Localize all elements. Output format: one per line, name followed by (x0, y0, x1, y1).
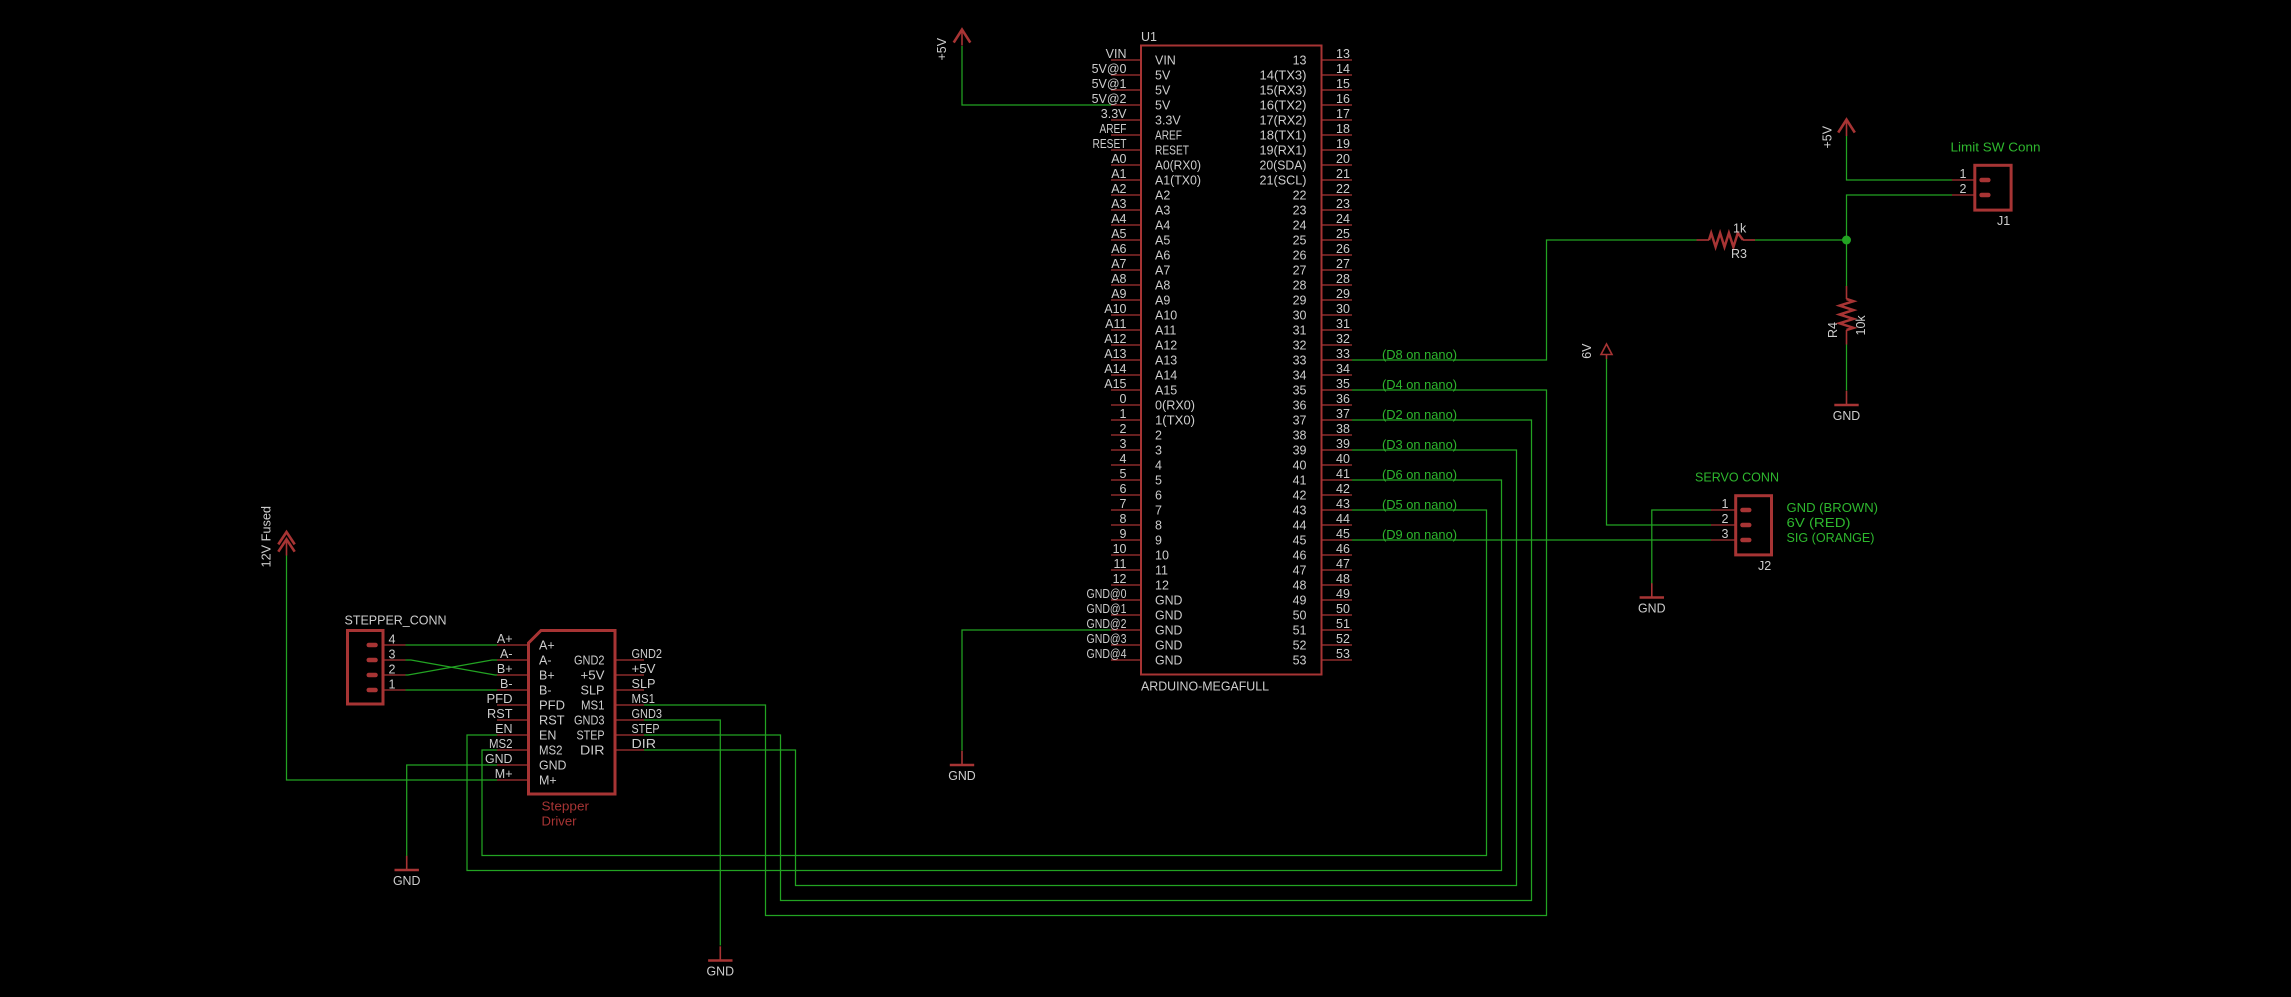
svg-text:A8: A8 (1155, 279, 1170, 293)
wire STEPPER_CONN pin 1 to driver B- (406, 689, 498, 691)
svg-text:ARDUINO-MEGAFULL: ARDUINO-MEGAFULL (1141, 680, 1269, 694)
svg-text:47: 47 (1293, 564, 1307, 578)
wire U1 pin 45 to J2 pin 3 (1352, 539, 1711, 541)
svg-text:26: 26 (1293, 249, 1307, 263)
power +5V supply symbol (left, feeds U1 5V pin) (935, 30, 970, 61)
svg-text:41: 41 (1336, 467, 1350, 481)
svg-text:GND2: GND2 (574, 654, 605, 668)
svg-text:GND: GND (1638, 602, 1666, 616)
svg-text:A5: A5 (1155, 234, 1170, 248)
svg-text:(D3 on nano): (D3 on nano) (1382, 438, 1457, 452)
svg-text:9: 9 (1120, 527, 1127, 541)
svg-text:6: 6 (1155, 489, 1162, 503)
svg-text:Limit SW Conn: Limit SW Conn (1951, 141, 2041, 155)
svg-text:A3: A3 (1111, 197, 1126, 211)
svg-text:46: 46 (1336, 542, 1350, 556)
svg-text:A-: A- (500, 647, 513, 661)
svg-text:6V: 6V (1580, 343, 1594, 359)
svg-text:A9: A9 (1155, 294, 1170, 308)
svg-text:3: 3 (389, 648, 396, 662)
svg-text:20(SDA): 20(SDA) (1260, 159, 1307, 173)
svg-text:+5V: +5V (632, 662, 657, 676)
svg-text:EN: EN (495, 722, 512, 736)
svg-text:21(SCL): 21(SCL) (1260, 174, 1307, 188)
wire driver GND3 pin to ground (644, 720, 720, 946)
svg-text:MS1: MS1 (632, 692, 656, 706)
svg-text:GND@3: GND@3 (1087, 632, 1127, 646)
svg-text:GND (BROWN): GND (BROWN) (1787, 501, 1879, 515)
power 6V supply symbol (1580, 343, 1612, 359)
wire driver DIR pin to U1 pin 39 (644, 450, 1517, 886)
svg-text:DIR: DIR (580, 744, 605, 758)
svg-text:8: 8 (1155, 519, 1162, 533)
svg-text:1(TX0): 1(TX0) (1155, 414, 1195, 428)
svg-text:GND: GND (1155, 624, 1183, 638)
svg-text:0: 0 (1120, 392, 1127, 406)
wire U1 GND@2 pin to ground (962, 630, 1111, 751)
svg-text:1: 1 (389, 678, 396, 692)
svg-text:A+: A+ (497, 632, 513, 646)
svg-text:21: 21 (1336, 167, 1350, 181)
svg-text:A6: A6 (1111, 242, 1126, 256)
svg-text:RESET: RESET (1155, 144, 1189, 158)
svg-text:3: 3 (1120, 437, 1127, 451)
svg-text:A12: A12 (1104, 332, 1126, 346)
svg-text:40: 40 (1293, 459, 1307, 473)
svg-text:A14: A14 (1155, 369, 1177, 383)
svg-text:33: 33 (1336, 347, 1350, 361)
svg-text:30: 30 (1293, 309, 1307, 323)
svg-text:7: 7 (1120, 497, 1127, 511)
ground below stepper driver (393, 856, 421, 888)
svg-text:MS2: MS2 (539, 744, 563, 758)
svg-text:MS1: MS1 (581, 699, 605, 713)
svg-text:(D6 on nano): (D6 on nano) (1382, 468, 1457, 482)
svg-text:42: 42 (1293, 489, 1307, 503)
ground below resistor R4 (1833, 391, 1861, 423)
svg-text:0(RX0): 0(RX0) (1155, 399, 1195, 413)
svg-text:J2: J2 (1758, 559, 1771, 573)
wire +5V to U1 5V@2 pin (962, 46, 1111, 105)
wire STEPPER_CONN pin 2 to driver A- (crossover) (406, 660, 498, 675)
wire J2 pin 2 to 6V supply (1607, 359, 1712, 525)
svg-text:23: 23 (1336, 197, 1350, 211)
svg-text:MS2: MS2 (489, 737, 513, 751)
svg-text:5V: 5V (1155, 69, 1171, 83)
wire driver EN pin to U1 pin 41 (467, 480, 1502, 871)
svg-text:18(TX1): 18(TX1) (1260, 129, 1307, 143)
svg-text:GND: GND (485, 752, 513, 766)
svg-text:R3: R3 (1731, 247, 1747, 261)
IC stepper driver with pin stubs and pin name labels (485, 631, 662, 829)
svg-text:10: 10 (1113, 542, 1127, 556)
svg-text:27: 27 (1336, 257, 1350, 271)
wire driver GND pin to ground (407, 765, 497, 857)
svg-text:29: 29 (1336, 287, 1350, 301)
svg-text:PFD: PFD (487, 692, 513, 706)
svg-text:16: 16 (1336, 92, 1350, 106)
svg-text:36: 36 (1293, 399, 1307, 413)
connector J2 SERVO CONN (1695, 471, 1779, 574)
svg-text:26: 26 (1336, 242, 1350, 256)
svg-text:10k: 10k (1854, 315, 1868, 336)
svg-text:4: 4 (1155, 459, 1162, 473)
svg-text:A1: A1 (1111, 167, 1126, 181)
svg-text:25: 25 (1293, 234, 1307, 248)
svg-text:SLP: SLP (581, 684, 605, 698)
svg-text:SIG (ORANGE): SIG (ORANGE) (1787, 531, 1875, 545)
svg-text:A10: A10 (1155, 309, 1177, 323)
svg-text:A6: A6 (1155, 249, 1170, 263)
svg-text:10: 10 (1155, 549, 1169, 563)
svg-text:24: 24 (1336, 212, 1350, 226)
svg-text:6V (RED): 6V (RED) (1787, 516, 1851, 530)
svg-text:J1: J1 (1997, 214, 2010, 228)
svg-text:(D9 on nano): (D9 on nano) (1382, 528, 1457, 542)
svg-text:22: 22 (1293, 189, 1307, 203)
svg-text:AREF: AREF (1100, 122, 1127, 136)
svg-text:15: 15 (1336, 77, 1350, 91)
svg-text:1: 1 (1960, 167, 1967, 181)
wire driver MS1 pin to U1 pin 35 (644, 390, 1547, 916)
svg-text:4: 4 (389, 633, 396, 647)
svg-text:14: 14 (1336, 62, 1350, 76)
svg-text:1k: 1k (1733, 222, 1747, 236)
svg-text:35: 35 (1336, 377, 1350, 391)
svg-text:16(TX2): 16(TX2) (1260, 99, 1307, 113)
junction node R3/R4/J1.2 (1842, 236, 1851, 245)
svg-text:49: 49 (1293, 594, 1307, 608)
svg-text:27: 27 (1293, 264, 1307, 278)
ground below U1 GND@2 (948, 751, 976, 783)
svg-text:+5V: +5V (1821, 125, 1835, 148)
svg-text:50: 50 (1336, 602, 1350, 616)
svg-text:48: 48 (1293, 579, 1307, 593)
svg-text:31: 31 (1293, 324, 1307, 338)
power +5V supply symbol (right, feeds limit switch) (1821, 120, 1855, 149)
svg-text:34: 34 (1336, 362, 1350, 376)
svg-text:5V@2: 5V@2 (1092, 92, 1127, 106)
svg-text:A-: A- (539, 654, 552, 668)
svg-text:49: 49 (1336, 587, 1350, 601)
svg-text:GND@1: GND@1 (1087, 602, 1127, 616)
svg-text:A0(RX0): A0(RX0) (1155, 159, 1201, 173)
svg-text:A5: A5 (1111, 227, 1126, 241)
svg-text:53: 53 (1336, 647, 1350, 661)
svg-text:A8: A8 (1111, 272, 1126, 286)
wire U1 pin 33 to resistor R3 (1352, 240, 1697, 360)
svg-text:GND@4: GND@4 (1087, 647, 1127, 661)
svg-text:15(RX3): 15(RX3) (1260, 84, 1307, 98)
svg-text:17(RX2): 17(RX2) (1260, 114, 1307, 128)
svg-text:19(RX1): 19(RX1) (1260, 144, 1307, 158)
svg-text:41: 41 (1293, 474, 1307, 488)
svg-text:20: 20 (1336, 152, 1350, 166)
svg-text:13: 13 (1336, 47, 1350, 61)
svg-text:18: 18 (1336, 122, 1350, 136)
wire resistor R4 bottom to ground (1846, 345, 1848, 391)
svg-text:+5V: +5V (935, 37, 949, 60)
wire J1 pin 2 to node at R3/R4 (1847, 195, 1953, 240)
svg-text:5V: 5V (1155, 84, 1171, 98)
svg-text:2: 2 (1120, 422, 1127, 436)
svg-text:M+: M+ (539, 774, 557, 788)
svg-text:Driver: Driver (542, 815, 577, 829)
svg-text:7: 7 (1155, 504, 1162, 518)
wire +5V to J1 pin 1 (1847, 136, 1953, 180)
svg-text:14(TX3): 14(TX3) (1260, 69, 1307, 83)
svg-text:M+: M+ (495, 767, 513, 781)
svg-text:A2: A2 (1155, 189, 1170, 203)
svg-text:50: 50 (1293, 609, 1307, 623)
svg-text:GND3: GND3 (632, 707, 663, 721)
svg-text:37: 37 (1336, 407, 1350, 421)
svg-text:6: 6 (1120, 482, 1127, 496)
svg-text:2: 2 (389, 663, 396, 677)
svg-text:43: 43 (1336, 497, 1350, 511)
svg-text:VIN: VIN (1155, 54, 1176, 68)
svg-text:STEP: STEP (632, 722, 660, 736)
svg-text:A15: A15 (1104, 377, 1126, 391)
svg-text:STEP: STEP (577, 729, 605, 743)
svg-text:VIN: VIN (1106, 47, 1127, 61)
svg-text:5: 5 (1155, 474, 1162, 488)
svg-text:45: 45 (1293, 534, 1307, 548)
svg-text:39: 39 (1336, 437, 1350, 451)
svg-text:GND@2: GND@2 (1087, 617, 1127, 631)
svg-text:3: 3 (1722, 527, 1729, 541)
svg-text:A13: A13 (1155, 354, 1177, 368)
svg-text:1: 1 (1722, 497, 1729, 511)
svg-text:A14: A14 (1104, 362, 1126, 376)
svg-text:8: 8 (1120, 512, 1127, 526)
svg-text:5V: 5V (1155, 99, 1171, 113)
svg-text:51: 51 (1336, 617, 1350, 631)
svg-text:3: 3 (1155, 444, 1162, 458)
connector J1 Limit SW Conn (1951, 141, 2041, 229)
svg-text:A11: A11 (1105, 317, 1126, 331)
svg-text:GND: GND (707, 965, 735, 979)
resistor R4 10k (1826, 286, 1868, 345)
svg-text:STEPPER_CONN: STEPPER_CONN (345, 614, 447, 628)
svg-text:3.3V: 3.3V (1155, 114, 1181, 128)
svg-text:42: 42 (1336, 482, 1350, 496)
svg-text:5: 5 (1120, 467, 1127, 481)
wire J2 pin 1 to ground (1652, 510, 1711, 584)
svg-text:B+: B+ (497, 662, 513, 676)
connector STEPPER_CONN (345, 614, 447, 705)
svg-text:SLP: SLP (632, 677, 656, 691)
svg-text:19: 19 (1336, 137, 1350, 151)
svg-text:SERVO CONN: SERVO CONN (1695, 471, 1779, 485)
wire driver STEP pin to U1 pin 37 (644, 420, 1532, 901)
svg-text:GND: GND (1155, 609, 1183, 623)
svg-text:A+: A+ (539, 639, 555, 653)
svg-text:29: 29 (1293, 294, 1307, 308)
svg-text:GND: GND (539, 759, 567, 773)
svg-text:(D5 on nano): (D5 on nano) (1382, 498, 1457, 512)
svg-text:(D8 on nano): (D8 on nano) (1382, 348, 1457, 362)
svg-text:GND3: GND3 (574, 714, 605, 728)
svg-text:39: 39 (1293, 444, 1307, 458)
svg-text:A12: A12 (1155, 339, 1177, 353)
IC U1 ARDUINO-MEGAFULL with pin stubs, pin numbers and pin name labels (1087, 30, 1353, 694)
svg-text:GND: GND (1833, 409, 1861, 423)
svg-text:12: 12 (1155, 579, 1169, 593)
svg-text:RESET: RESET (1093, 137, 1127, 151)
svg-text:GND: GND (1155, 654, 1183, 668)
svg-text:A7: A7 (1111, 257, 1126, 271)
svg-text:A3: A3 (1155, 204, 1170, 218)
svg-text:52: 52 (1293, 639, 1307, 653)
svg-text:44: 44 (1336, 512, 1350, 526)
svg-text:36: 36 (1336, 392, 1350, 406)
svg-text:3.3V: 3.3V (1101, 107, 1127, 121)
svg-text:RST: RST (487, 707, 513, 721)
svg-text:17: 17 (1336, 107, 1350, 121)
svg-text:(D2 on nano): (D2 on nano) (1382, 408, 1457, 422)
svg-text:11: 11 (1114, 557, 1127, 571)
svg-text:32: 32 (1293, 339, 1307, 353)
svg-text:RST: RST (539, 714, 565, 728)
svg-text:5V@0: 5V@0 (1092, 62, 1127, 76)
wire resistor R3 to node at R4 top (1755, 239, 1847, 241)
power 12V Fused supply symbol (260, 506, 295, 568)
wire STEPPER_CONN pin 3 to driver B+ (crossover) (406, 660, 498, 675)
svg-text:38: 38 (1336, 422, 1350, 436)
svg-text:EN: EN (539, 729, 556, 743)
ground below J2 pin 1 (1638, 583, 1666, 615)
svg-text:GND: GND (1155, 639, 1183, 653)
svg-text:23: 23 (1293, 204, 1307, 218)
svg-text:B+: B+ (539, 669, 555, 683)
svg-text:A10: A10 (1104, 302, 1126, 316)
svg-text:52: 52 (1336, 632, 1350, 646)
svg-text:2: 2 (1722, 512, 1729, 526)
svg-text:(D4 on nano): (D4 on nano) (1382, 378, 1457, 392)
svg-text:34: 34 (1293, 369, 1307, 383)
svg-text:11: 11 (1155, 564, 1168, 578)
svg-text:47: 47 (1336, 557, 1350, 571)
svg-text:51: 51 (1293, 624, 1307, 638)
svg-text:5V@1: 5V@1 (1092, 77, 1127, 91)
svg-text:12: 12 (1113, 572, 1127, 586)
svg-text:31: 31 (1336, 317, 1350, 331)
svg-text:4: 4 (1120, 452, 1127, 466)
svg-text:28: 28 (1336, 272, 1350, 286)
svg-text:A9: A9 (1111, 287, 1126, 301)
svg-text:B-: B- (500, 677, 513, 691)
resistor R3 1k (1697, 222, 1756, 262)
svg-text:GND@0: GND@0 (1087, 587, 1127, 601)
svg-text:12V Fused: 12V Fused (260, 506, 274, 568)
svg-text:38: 38 (1293, 429, 1307, 443)
svg-text:GND2: GND2 (632, 647, 663, 661)
svg-text:1: 1 (1120, 407, 1127, 421)
svg-text:R4: R4 (1826, 322, 1840, 338)
svg-text:44: 44 (1293, 519, 1307, 533)
svg-text:PFD: PFD (539, 699, 565, 713)
svg-text:2: 2 (1960, 182, 1967, 196)
svg-text:A11: A11 (1155, 324, 1176, 338)
svg-text:GND: GND (948, 769, 976, 783)
ground below driver GND3 (707, 946, 735, 978)
svg-text:A2: A2 (1111, 182, 1126, 196)
svg-text:22: 22 (1336, 182, 1350, 196)
svg-text:A13: A13 (1104, 347, 1126, 361)
svg-text:2: 2 (1155, 429, 1162, 443)
svg-text:40: 40 (1336, 452, 1350, 466)
wire 12V Fused to driver M+ pin (287, 556, 498, 781)
svg-text:A15: A15 (1155, 384, 1177, 398)
svg-text:U1: U1 (1141, 30, 1157, 44)
svg-text:GND: GND (393, 874, 421, 888)
svg-text:Stepper: Stepper (542, 800, 590, 814)
svg-text:35: 35 (1293, 384, 1307, 398)
wire STEPPER_CONN pin 4 to driver A+ (406, 644, 498, 646)
svg-text:46: 46 (1293, 549, 1307, 563)
svg-text:28: 28 (1293, 279, 1307, 293)
svg-text:32: 32 (1336, 332, 1350, 346)
svg-text:A7: A7 (1155, 264, 1170, 278)
svg-text:33: 33 (1293, 354, 1307, 368)
wire driver MS2 pin to U1 pin 43 (482, 510, 1487, 856)
svg-text:48: 48 (1336, 572, 1350, 586)
svg-text:30: 30 (1336, 302, 1350, 316)
svg-text:AREF: AREF (1155, 129, 1182, 143)
svg-text:53: 53 (1293, 654, 1307, 668)
svg-text:A1(TX0): A1(TX0) (1155, 174, 1201, 188)
svg-text:+5V: +5V (581, 669, 606, 683)
svg-text:A4: A4 (1155, 219, 1170, 233)
svg-text:A0: A0 (1111, 152, 1126, 166)
svg-text:45: 45 (1336, 527, 1350, 541)
svg-text:43: 43 (1293, 504, 1307, 518)
svg-text:24: 24 (1293, 219, 1307, 233)
svg-text:DIR: DIR (632, 737, 657, 751)
svg-text:GND: GND (1155, 594, 1183, 608)
wire node to resistor R4 top (1846, 240, 1848, 286)
svg-text:9: 9 (1155, 534, 1162, 548)
svg-text:B-: B- (539, 684, 552, 698)
svg-text:13: 13 (1293, 54, 1307, 68)
svg-text:25: 25 (1336, 227, 1350, 241)
svg-text:37: 37 (1293, 414, 1307, 428)
svg-text:A4: A4 (1111, 212, 1126, 226)
